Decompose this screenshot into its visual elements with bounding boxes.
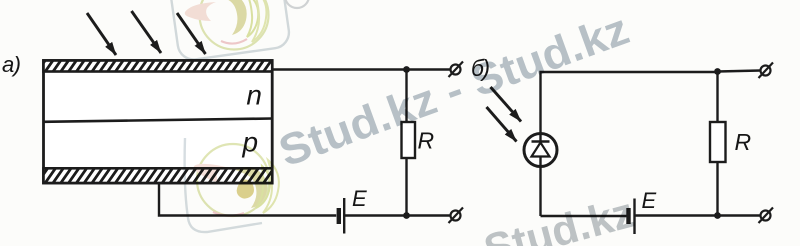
watermark logo top: pink tail	[185, 2, 216, 21]
svg-text:E: E	[352, 186, 367, 211]
bottom electrode (hatched)	[44, 168, 273, 183]
watermark logo middle: rounded square	[185, 138, 262, 232]
watermark logo top: inner arcs	[247, 0, 258, 37]
top electrode (hatched)	[44, 61, 273, 72]
watermark logo middle: bright core	[237, 180, 254, 199]
battery E (fig a)	[339, 198, 344, 234]
node (junction dot) top b	[714, 68, 721, 75]
svg-text:а): а)	[2, 52, 21, 77]
node (junction dot) bottom b	[714, 212, 721, 219]
light arrow 1	[87, 13, 116, 55]
wire: top electrode to node	[272, 68, 407, 70]
wire: battery to bottom node b	[635, 214, 718, 216]
node (junction dot) bottom a	[403, 212, 410, 219]
wire: photodiode up and right to node b (top-left corner fig b)	[541, 72, 718, 141]
watermark logo middle: swirl head	[235, 167, 267, 208]
watermark logo top: swirl head	[214, 0, 247, 35]
photocell body outline	[44, 61, 273, 184]
wire: battery to bottom node	[344, 214, 406, 216]
wire: resistor to bottom node	[405, 158, 407, 216]
battery E (fig b)	[629, 199, 635, 235]
wire: resistor b to bottom node	[716, 162, 718, 216]
resistor R (fig a)	[402, 122, 416, 158]
svg-text:n: n	[246, 80, 262, 111]
terminal top a	[449, 62, 464, 78]
wire: bottom node b to terminal	[718, 214, 761, 216]
n/p junction divider	[44, 119, 273, 122]
watermark logo top: pink arc	[221, 39, 247, 44]
svg-text:R: R	[735, 129, 752, 155]
wire: node down to resistor	[405, 70, 407, 123]
svg-text:R: R	[418, 127, 435, 153]
wire: top node b to terminal	[718, 71, 761, 72]
svg-text:E: E	[642, 188, 657, 213]
watermark logo middle: pink arc	[213, 212, 244, 216]
watermark logo top: circle	[200, 0, 269, 50]
watermark small circle top right	[285, 0, 309, 8]
watermark logo middle: pink tail	[194, 164, 236, 183]
light arrow 5	[487, 107, 517, 142]
light arrow 3	[177, 13, 206, 54]
photodiode VD	[524, 134, 557, 167]
light arrow 4	[491, 87, 522, 122]
wire: bottom electrode down and right to battery	[159, 183, 336, 216]
wire: bottom node to terminal	[407, 214, 451, 216]
terminal bottom b	[759, 208, 774, 224]
wire: photodiode down to bottom wire	[539, 166, 541, 216]
wire: node to terminal	[407, 68, 451, 70]
wire: bottom left to battery	[541, 215, 627, 217]
terminal bottom a	[449, 208, 464, 224]
wire: top node down to resistor b	[716, 72, 718, 122]
node (junction dot) top a	[403, 66, 410, 73]
watermark logo middle: circle	[197, 144, 269, 216]
watermark logo middle: inner arcs	[256, 166, 270, 208]
light arrow 2	[132, 11, 162, 53]
watermark logo top: rounded square	[160, 0, 291, 62]
terminal top b	[759, 63, 774, 79]
resistor R (fig b)	[710, 122, 726, 162]
